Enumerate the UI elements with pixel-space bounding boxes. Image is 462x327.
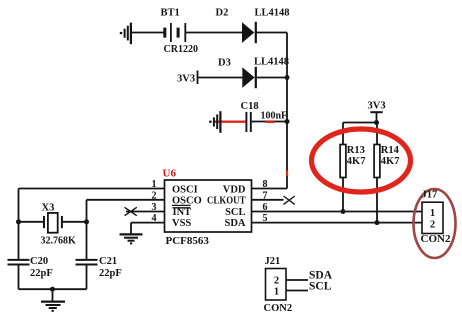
- svg-text:2: 2: [152, 190, 157, 201]
- wire J21 pin 1 (SCL): [286, 290, 308, 292]
- svg-text:6: 6: [263, 202, 268, 213]
- wire D2 to corner: [256, 32, 287, 34]
- diode D3: [242, 67, 256, 88]
- junction dot 3V3 split: [374, 120, 379, 125]
- svg-text:1: 1: [152, 179, 157, 190]
- wire main vertical (D2 cathode rail down to pin 8): [286, 33, 288, 189]
- battery BT1 CR1220: [165, 23, 186, 42]
- junction dot R14/SDA: [375, 220, 380, 225]
- capacitor C18: [246, 112, 250, 132]
- ground (C18, sideways): [210, 111, 220, 133]
- pin label INT with overline: [173, 207, 192, 218]
- red wire segment under 100nF: [266, 120, 275, 123]
- wire BT1 to D2: [185, 32, 242, 34]
- svg-text:C18: C18: [241, 101, 259, 112]
- pin 2 OSCO wire: [87, 190, 165, 201]
- junction dot crystal left: [16, 219, 21, 224]
- wire X3 right down to C21: [86, 222, 88, 260]
- wire ground to C18 (red highlighted): [214, 120, 247, 122]
- junction dot crystal right: [84, 219, 89, 224]
- svg-text:J17: J17: [422, 190, 438, 201]
- red annotation ellipse (pull-ups): [312, 129, 411, 192]
- pin 3 INT wire (no connect): [125, 202, 165, 216]
- resistor R14: [374, 123, 380, 223]
- pin 7 CLKOUT wire (no connect): [252, 190, 295, 204]
- wire C20 down: [18, 265, 20, 290]
- svg-text:CR1220: CR1220: [164, 44, 198, 55]
- resistor R13: [340, 123, 346, 212]
- crystal X3: [19, 213, 87, 233]
- connector J21 box: [266, 269, 287, 301]
- svg-text:5: 5: [263, 213, 268, 224]
- svg-text:SCL: SCL: [225, 207, 245, 218]
- junction dot D3/main: [285, 75, 290, 80]
- svg-text:X3: X3: [42, 203, 55, 214]
- svg-text:D2: D2: [216, 8, 229, 19]
- svg-text:4K7: 4K7: [347, 156, 366, 167]
- svg-text:2: 2: [430, 220, 435, 231]
- wire 3V3 to D3: [198, 77, 244, 79]
- power port 3V3 (pull-ups): [368, 101, 386, 123]
- svg-text:LL4148: LL4148: [254, 57, 289, 68]
- capacitor C21: [76, 260, 98, 265]
- junction dot C18/main: [285, 119, 290, 124]
- pin 6 SCL wire to J17: [252, 202, 423, 213]
- svg-text:32.768K: 32.768K: [41, 236, 77, 247]
- svg-text:R13: R13: [347, 145, 365, 156]
- wire C18 to junction: [252, 121, 287, 123]
- junction dot rail/ground: [50, 287, 55, 292]
- connector J17 box: [422, 202, 443, 233]
- svg-text:4K7: 4K7: [381, 156, 400, 167]
- pin 1 OSCI wire: [19, 179, 165, 190]
- ground (VSS): [120, 234, 143, 243]
- diode D2: [242, 22, 256, 43]
- wire D3 to junction: [256, 77, 287, 79]
- svg-text:LL4148: LL4148: [255, 8, 290, 19]
- svg-text:R14: R14: [381, 145, 400, 156]
- svg-text:100nF: 100nF: [261, 111, 288, 122]
- svg-text:8: 8: [263, 179, 268, 190]
- svg-text:1: 1: [274, 287, 279, 298]
- svg-text:U6: U6: [163, 168, 177, 180]
- svg-text:3V3: 3V3: [177, 74, 195, 85]
- svg-text:SDA: SDA: [224, 218, 245, 229]
- power port 3V3 (D3 anode): [177, 71, 198, 85]
- capacitor C20: [8, 260, 30, 265]
- wire J21 pin 2 (SDA): [286, 279, 308, 281]
- wire X3 left down to C20: [18, 222, 20, 260]
- wire bottom rail: [19, 288, 87, 290]
- svg-text:22pF: 22pF: [30, 268, 53, 279]
- svg-text:3: 3: [152, 202, 157, 213]
- wire OSCO vertical: [86, 200, 88, 222]
- wire C21 down: [86, 265, 88, 290]
- red tick on main vertical: [286, 171, 288, 177]
- svg-text:VSS: VSS: [172, 218, 191, 229]
- svg-text:2: 2: [274, 276, 279, 287]
- op IC U6 PCF8563 box: [165, 180, 252, 232]
- ground (battery negative, sideways): [121, 23, 131, 45]
- svg-text:7: 7: [263, 190, 268, 201]
- wire 3V3 to R13 top: [343, 122, 377, 124]
- svg-text:BT1: BT1: [161, 8, 180, 19]
- svg-text:J21: J21: [265, 256, 281, 267]
- red annotation ellipse (J17): [414, 189, 456, 258]
- ground (oscillator caps): [41, 289, 65, 311]
- wire ground to BT1: [131, 32, 165, 34]
- svg-text:3V3: 3V3: [368, 101, 386, 112]
- pin label OSCO with underline: [172, 196, 202, 207]
- svg-text:C21: C21: [99, 256, 117, 267]
- pin 5 SDA wire to J17: [252, 213, 423, 224]
- svg-text:SCL: SCL: [309, 281, 332, 293]
- svg-text:INT: INT: [173, 207, 192, 218]
- junction dot R13/SCL: [341, 209, 346, 214]
- svg-text:22pF: 22pF: [99, 268, 122, 279]
- wire OSCI vertical: [18, 189, 20, 222]
- svg-text:D3: D3: [218, 58, 231, 69]
- pin 8 VDD wire: [252, 179, 288, 190]
- svg-text:4: 4: [152, 213, 157, 224]
- svg-text:VDD: VDD: [223, 185, 246, 196]
- svg-text:1: 1: [430, 208, 435, 219]
- svg-text:CON2: CON2: [264, 303, 293, 314]
- svg-text:PCF8563: PCF8563: [166, 235, 210, 247]
- svg-text:CON2: CON2: [421, 233, 451, 245]
- svg-text:C20: C20: [30, 256, 48, 267]
- svg-text:CLKOUT: CLKOUT: [207, 196, 246, 207]
- svg-text:OSCI: OSCI: [172, 185, 198, 196]
- pin 4 VSS wire: [131, 213, 165, 234]
